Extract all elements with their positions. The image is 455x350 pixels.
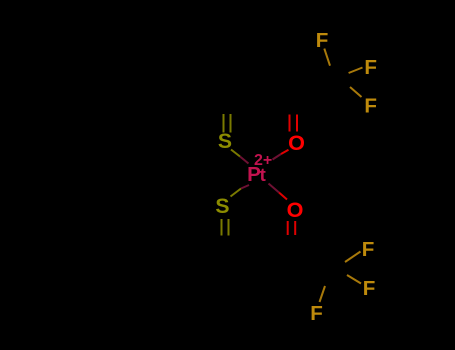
bond O2-Pt (oxygen half) — [279, 193, 287, 200]
bond O1-Pt (oxygen half) — [281, 150, 289, 154]
bond S1-Pt (sulfur half) — [231, 150, 240, 157]
bond C-F5 — [347, 275, 361, 284]
svg-text:O: O — [288, 130, 305, 155]
svg-text:F: F — [362, 238, 375, 261]
double bond C=S1 — [224, 114, 231, 133]
bond O1-Pt (platinum half) — [273, 154, 282, 160]
bond O2-Pt (platinum half) — [269, 184, 280, 193]
svg-text:F: F — [310, 302, 323, 325]
svg-text:F: F — [364, 95, 377, 118]
bond C-F2 — [349, 68, 363, 74]
bond S1-Pt (platinum half) — [240, 157, 249, 164]
double bond C=O2 — [288, 221, 296, 235]
bond C-F4 — [345, 252, 361, 263]
svg-text:F: F — [316, 29, 329, 52]
double bond C=S2 — [222, 219, 229, 236]
svg-text:F: F — [363, 277, 376, 300]
svg-text:S: S — [215, 195, 229, 218]
bond C-F3 — [350, 87, 362, 97]
double bond C=O1 — [290, 115, 298, 132]
bond S2-Pt (sulfur half) — [231, 189, 242, 197]
bond C-F1 — [324, 49, 330, 66]
svg-text:F: F — [364, 56, 377, 79]
svg-text:S: S — [218, 130, 232, 153]
svg-text:O: O — [287, 197, 304, 222]
bond S2-Pt (platinum half) — [241, 185, 249, 189]
svg-text:2+: 2+ — [254, 152, 272, 169]
bond C-F6 — [320, 286, 326, 302]
